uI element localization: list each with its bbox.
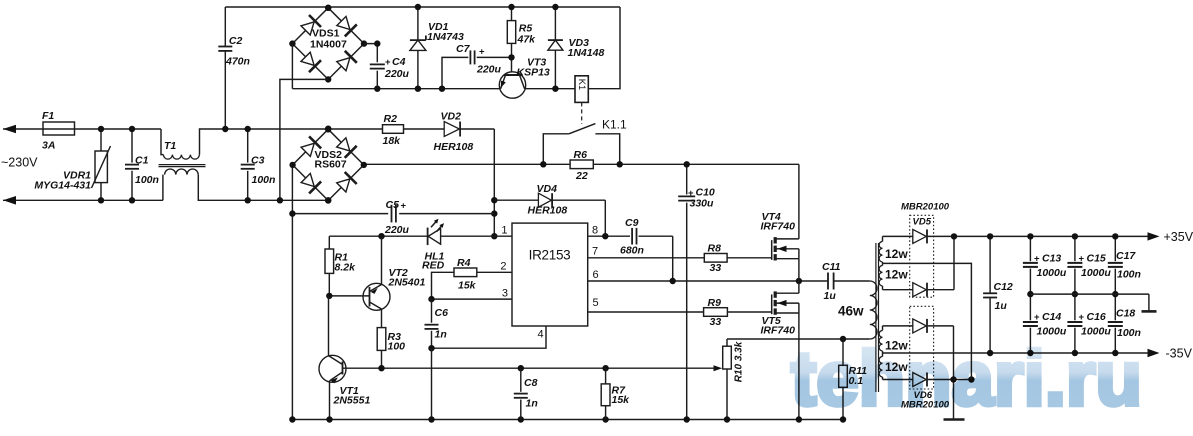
- svg-text:C1: C1: [135, 155, 149, 167]
- svg-text:MYG14-431: MYG14-431: [34, 180, 91, 192]
- svg-text:IRF740: IRF740: [761, 325, 796, 337]
- svg-text:R9: R9: [708, 297, 722, 309]
- svg-text:15k: 15k: [458, 280, 477, 292]
- svg-text:+: +: [385, 57, 391, 68]
- svg-text:C5: C5: [386, 199, 400, 211]
- svg-text:C6: C6: [435, 307, 449, 319]
- svg-text:C3: C3: [251, 155, 265, 167]
- svg-text:330u: 330u: [690, 198, 715, 210]
- svg-text:C15: C15: [1087, 253, 1106, 265]
- svg-text:46w: 46w: [838, 304, 864, 319]
- svg-text:4: 4: [538, 329, 544, 341]
- svg-text:1000u: 1000u: [1037, 267, 1067, 279]
- svg-text:C18: C18: [1116, 308, 1135, 320]
- svg-text:+: +: [1079, 254, 1085, 265]
- svg-text:33: 33: [710, 262, 722, 274]
- svg-text:100n: 100n: [135, 174, 159, 186]
- svg-text:220u: 220u: [476, 64, 502, 76]
- svg-text:8: 8: [592, 225, 598, 237]
- svg-text:+: +: [401, 201, 407, 212]
- svg-text:3A: 3A: [42, 140, 55, 152]
- svg-text:R4: R4: [457, 257, 471, 269]
- svg-text:8.2k: 8.2k: [335, 262, 357, 274]
- svg-text:C11: C11: [822, 261, 841, 273]
- svg-text:K1.1: K1.1: [602, 118, 627, 132]
- svg-text:IRF740: IRF740: [761, 221, 796, 233]
- svg-text:+: +: [1034, 254, 1040, 265]
- svg-text:680n: 680n: [620, 245, 644, 257]
- svg-text:22: 22: [575, 170, 588, 182]
- svg-text:12w: 12w: [885, 268, 908, 282]
- svg-text:VD4: VD4: [537, 183, 558, 195]
- svg-text:RS607: RS607: [315, 159, 347, 171]
- svg-text:2: 2: [500, 261, 506, 273]
- svg-text:T1: T1: [164, 140, 176, 152]
- svg-text:3: 3: [502, 288, 508, 300]
- svg-text:2N5401: 2N5401: [388, 277, 426, 289]
- svg-text:C8: C8: [524, 377, 538, 389]
- svg-text:+: +: [1034, 312, 1040, 323]
- svg-text:IR2153: IR2153: [529, 248, 571, 263]
- svg-text:100n: 100n: [252, 174, 276, 186]
- svg-text:C17: C17: [1116, 250, 1136, 262]
- svg-text:HER108: HER108: [528, 205, 568, 217]
- svg-text:K1: K1: [577, 79, 587, 90]
- svg-text:C9: C9: [625, 217, 639, 229]
- svg-text:C16: C16: [1087, 311, 1106, 323]
- svg-text:R10 3.3k: R10 3.3k: [734, 341, 745, 382]
- svg-text:HER108: HER108: [434, 141, 474, 153]
- svg-text:C2: C2: [229, 35, 243, 47]
- svg-text:1u: 1u: [995, 300, 1008, 312]
- svg-text:1N4007: 1N4007: [310, 39, 347, 51]
- svg-text:100n: 100n: [1117, 269, 1141, 281]
- svg-text:1N4148: 1N4148: [568, 47, 605, 59]
- svg-text:C4: C4: [392, 56, 406, 68]
- svg-text:R8: R8: [708, 243, 722, 255]
- svg-text:C13: C13: [1042, 253, 1061, 265]
- svg-text:220u: 220u: [384, 224, 410, 236]
- svg-text:6: 6: [593, 269, 599, 281]
- svg-text:1u: 1u: [824, 290, 837, 302]
- svg-text:1n: 1n: [526, 398, 538, 410]
- svg-text:470n: 470n: [225, 56, 250, 68]
- svg-text:RED: RED: [422, 260, 445, 272]
- svg-text:5: 5: [593, 297, 599, 309]
- svg-text:R6: R6: [574, 149, 588, 161]
- svg-text:12w: 12w: [885, 247, 908, 261]
- svg-text:F1: F1: [42, 110, 54, 122]
- svg-text:+: +: [479, 47, 485, 58]
- svg-text:1n: 1n: [435, 329, 447, 341]
- svg-text:1: 1: [501, 225, 507, 237]
- svg-text:18k: 18k: [383, 135, 402, 147]
- svg-text:1000u: 1000u: [1081, 267, 1111, 279]
- svg-text:C7: C7: [456, 43, 471, 55]
- svg-text:+: +: [1079, 312, 1085, 323]
- svg-text:C12: C12: [994, 281, 1013, 293]
- svg-text:15k: 15k: [612, 394, 631, 406]
- svg-text:VD2: VD2: [441, 111, 462, 123]
- svg-text:-35V: -35V: [1166, 347, 1193, 361]
- svg-text:2N5551: 2N5551: [333, 395, 371, 407]
- svg-text:KSP13: KSP13: [517, 67, 550, 79]
- svg-text:VD5: VD5: [913, 217, 932, 228]
- svg-text:MBR20100: MBR20100: [901, 202, 950, 213]
- svg-text:33: 33: [710, 316, 722, 328]
- svg-text:~230V: ~230V: [1, 156, 38, 170]
- svg-text:+35V: +35V: [1164, 230, 1193, 244]
- svg-text:47k: 47k: [517, 34, 537, 46]
- svg-text:R2: R2: [384, 113, 398, 125]
- svg-text:100: 100: [388, 341, 406, 353]
- svg-text:7: 7: [592, 246, 598, 258]
- svg-text:220u: 220u: [384, 68, 410, 80]
- svg-text:tehnari.ru: tehnari.ru: [791, 336, 1142, 422]
- svg-text:1N4743: 1N4743: [427, 31, 464, 43]
- svg-text:C14: C14: [1042, 311, 1061, 323]
